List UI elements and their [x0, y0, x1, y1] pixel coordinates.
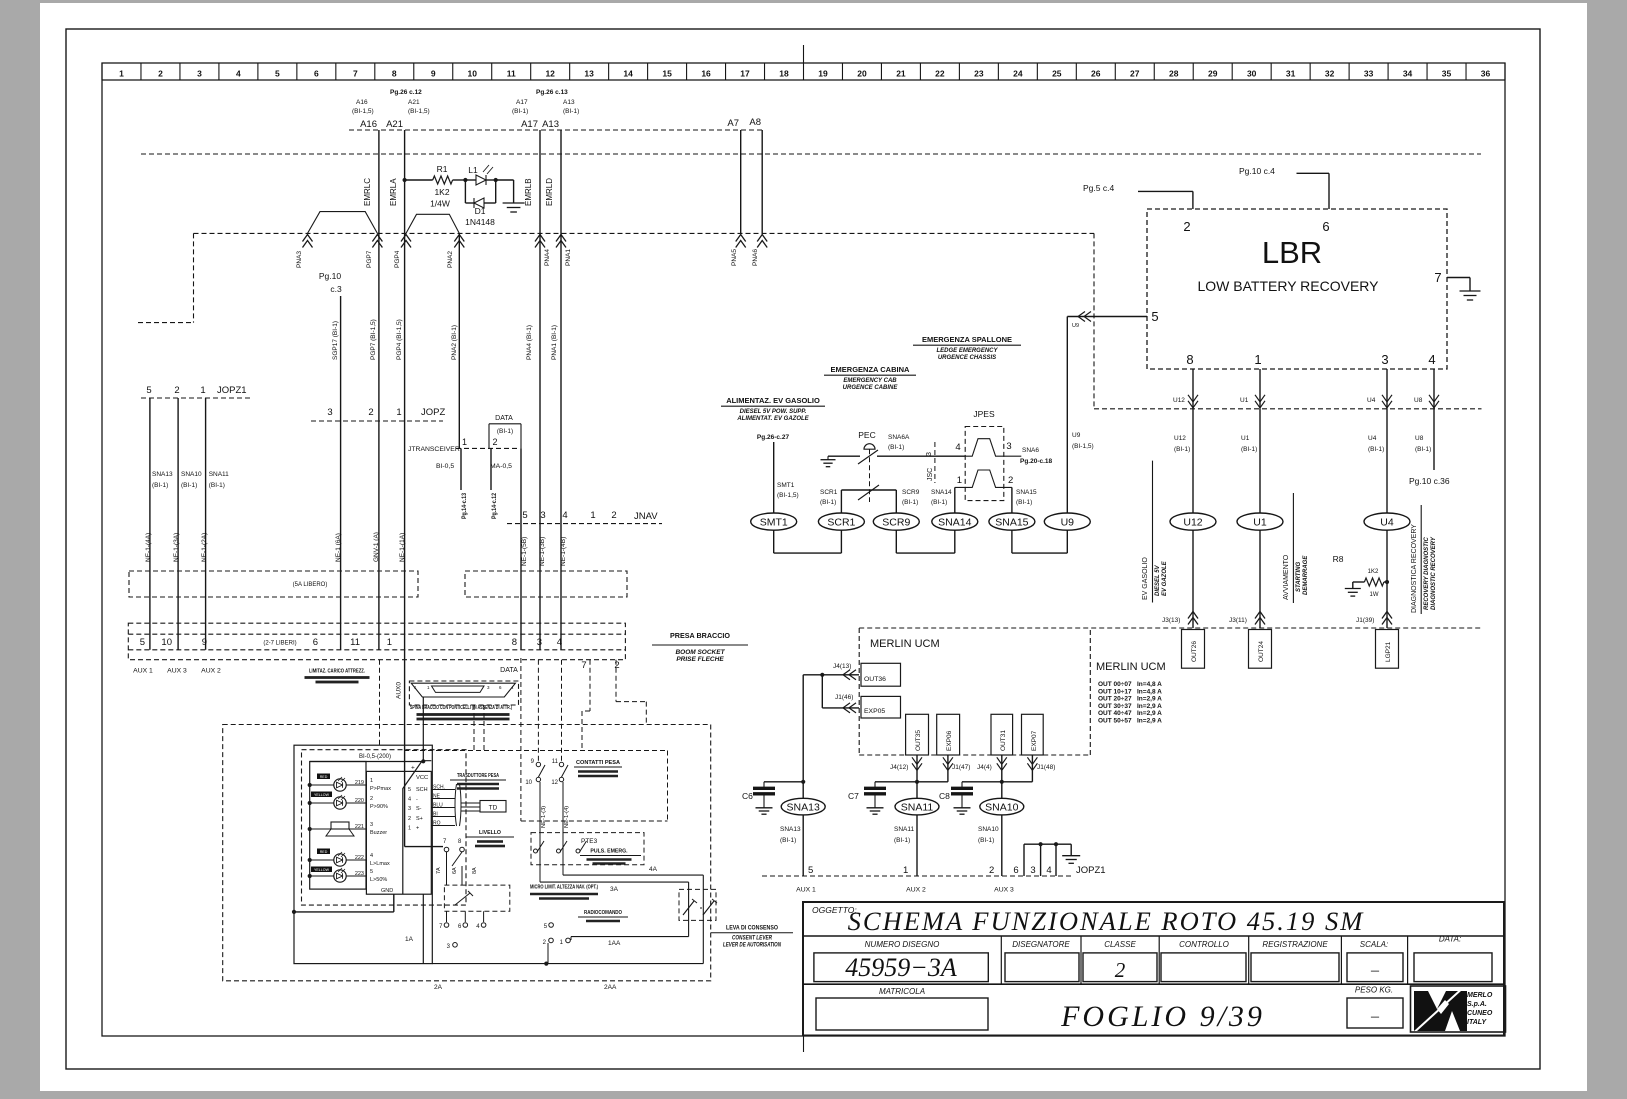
svg-text:OUT26: OUT26 [1191, 641, 1198, 662]
logo MERLO [1411, 986, 1506, 1032]
arrow PNA3 [303, 235, 313, 248]
wire SGP17 [340, 296, 342, 650]
wire A8 riser [761, 130, 763, 233]
svg-text:LGP21: LGP21 [1385, 641, 1392, 662]
bus C (dashed) y=233.4 main power bus [194, 232, 1095, 234]
svg-text:DEMARRAGE: DEMARRAGE [1303, 555, 1309, 595]
terminal EXP07 [1022, 714, 1044, 755]
svg-text:AUX 3: AUX 3 [994, 887, 1014, 894]
wire to ground [496, 179, 514, 181]
svg-text:OUT 40÷47: OUT 40÷47 [1098, 710, 1132, 717]
wire LBR pin5 [1067, 316, 1147, 318]
svg-text:URGENCE CHASSIS: URGENCE CHASSIS [938, 355, 996, 361]
svg-text:TRASDUTTORE PESA: TRASDUTTORE PESA [457, 773, 499, 779]
box TD [480, 801, 506, 813]
svg-text:SNA10: SNA10 [985, 802, 1018, 814]
svg-text:S+: S+ [416, 816, 423, 822]
component U1 [1237, 513, 1283, 530]
svg-text:45959−3A: 45959−3A [845, 953, 957, 982]
svg-text:20: 20 [857, 69, 867, 79]
wire SNA15 [1011, 487, 1013, 513]
svg-text:U1: U1 [1241, 435, 1250, 442]
svg-text:(BI-1,5): (BI-1,5) [408, 108, 430, 115]
svg-text:1: 1 [408, 825, 411, 831]
svg-text:MA-0,5: MA-0,5 [490, 463, 512, 470]
svg-text:CUNEO: CUNEO [1467, 1010, 1493, 1017]
svg-text:J1(46): J1(46) [835, 694, 853, 701]
svg-text:U8: U8 [1414, 397, 1423, 404]
svg-text:7A: 7A [436, 867, 442, 874]
svg-text:CONSENT LEVER: CONSENT LEVER [732, 936, 773, 942]
svg-text:6: 6 [1322, 219, 1329, 234]
svg-text:PNA2: PNA2 [447, 251, 454, 268]
svg-text:2: 2 [408, 816, 411, 822]
module MERLIN UCM [859, 627, 1481, 629]
label JSC [934, 442, 936, 483]
svg-text:4: 4 [236, 69, 241, 79]
jumper bridge PGP4-PNA2 [406, 214, 459, 233]
dashed riser x=1094 to lower bus [1093, 233, 1095, 408]
svg-text:NE-1-(4B): NE-1-(4B) [560, 537, 567, 566]
svg-text:8: 8 [392, 69, 397, 79]
svg-text:30: 30 [1247, 69, 1257, 79]
svg-text:U4: U4 [1380, 517, 1394, 529]
connector JOPZ1 [141, 397, 253, 399]
svg-text:29: 29 [1208, 69, 1218, 79]
svg-text:(BI-1): (BI-1) [209, 482, 225, 489]
svg-text:FOGLIO 9/39: FOGLIO 9/39 [1060, 1000, 1265, 1033]
wire JOPZ1-1 [205, 398, 207, 650]
svg-text:3: 3 [197, 69, 202, 79]
terminal OUT26 [1182, 630, 1205, 669]
connector row PRESA BRACCIO [128, 623, 625, 660]
svg-text:3: 3 [1381, 352, 1388, 367]
contact CONTATTI PESA [404, 750, 668, 752]
wire JOPZ1-2 [177, 398, 179, 650]
component SCR1 [818, 513, 864, 530]
wire 1AA [571, 936, 689, 938]
resistor R1 [403, 178, 407, 182]
switch micro box [444, 885, 509, 911]
svg-text:SNA6: SNA6 [1022, 447, 1039, 454]
svg-text:–: – [1370, 1008, 1380, 1025]
svg-text:EV GASOLIO: EV GASOLIO [1142, 557, 1149, 600]
svg-text:5: 5 [408, 787, 411, 793]
svg-text:In=4,8 A: In=4,8 A [1137, 681, 1162, 688]
link SNA15-U9 [1011, 530, 1013, 553]
svg-text:PESO KG.: PESO KG. [1355, 986, 1393, 995]
svg-text:23: 23 [974, 69, 984, 79]
svg-text:11: 11 [507, 69, 516, 79]
svg-text:OUT 20÷27: OUT 20÷27 [1098, 696, 1132, 703]
svg-text:OUT24: OUT24 [1258, 641, 1265, 662]
arrow PNA1 [556, 235, 566, 248]
svg-text:SCHEMA FUNZIONALE ROTO 45.1: SCHEMA FUNZIONALE ROTO 45.19 SM [848, 906, 1365, 936]
svg-text:8: 8 [1186, 352, 1193, 367]
svg-text:U12: U12 [1174, 435, 1186, 442]
wire LBR pin8 / U12 [1192, 369, 1194, 409]
svg-text:PNA3: PNA3 [296, 251, 303, 268]
dashed riser x=193.5 [193, 233, 195, 322]
svg-text:OUT35: OUT35 [915, 730, 922, 751]
net label EV GASOLIO [1152, 461, 1154, 603]
svg-text:NE-1-(3B): NE-1-(3B) [539, 537, 546, 566]
svg-text:GNV-1 (A): GNV-1 (A) [373, 532, 380, 562]
svg-text:9: 9 [431, 69, 436, 79]
svg-text:PGP4 (BI-1,5): PGP4 (BI-1,5) [396, 319, 403, 360]
svg-text:6: 6 [1013, 865, 1018, 876]
svg-text:Pg.26-c.27: Pg.26-c.27 [757, 434, 790, 441]
svg-text:SCR1: SCR1 [827, 517, 855, 529]
arrow PNA4 [535, 235, 545, 248]
svg-text:(BI-1,5): (BI-1,5) [1072, 443, 1094, 450]
svg-text:U12: U12 [1183, 517, 1202, 529]
radio contacts [453, 943, 458, 948]
svg-text:(BI-1): (BI-1) [563, 108, 579, 115]
svg-text:(BI-1): (BI-1) [820, 499, 836, 506]
svg-text:U4: U4 [1368, 435, 1377, 442]
svg-text:SCR9: SCR9 [902, 489, 920, 496]
svg-text:(BI-1): (BI-1) [1016, 499, 1032, 506]
svg-text:1: 1 [462, 437, 467, 447]
wire PNA1 lower [560, 233, 562, 649]
svg-text:3A: 3A [610, 886, 619, 893]
svg-text:7: 7 [581, 660, 586, 671]
svg-text:D1: D1 [475, 206, 486, 216]
wire SNA14 [954, 487, 956, 513]
svg-text:2: 2 [174, 385, 179, 396]
svg-text:(BI-1): (BI-1) [780, 837, 796, 844]
wire JOPZ1-5 [149, 398, 151, 650]
wire EMRLB [539, 130, 541, 233]
svg-text:PRISE FLECHE: PRISE FLECHE [676, 656, 724, 663]
svg-text:2: 2 [1008, 475, 1013, 486]
wire SCR9 [895, 490, 897, 513]
svg-text:ALIMENTAZ. EV GASOLIO: ALIMENTAZ. EV GASOLIO [726, 396, 820, 405]
svg-text:PTE3: PTE3 [581, 838, 598, 845]
svg-text:U4: U4 [1367, 397, 1376, 404]
svg-text:OUT 30÷37: OUT 30÷37 [1098, 703, 1132, 710]
svg-text:10: 10 [468, 69, 478, 79]
svg-text:1: 1 [903, 865, 908, 876]
wire NE-1-(4) [562, 782, 564, 843]
svg-text:27: 27 [1130, 69, 1140, 79]
wire 2AA bottom [432, 963, 703, 965]
svg-text:LOW BATTERY RECOVERY: LOW BATTERY RECOVERY [1197, 278, 1379, 294]
svg-text:AUX 3: AUX 3 [167, 668, 187, 675]
wire EMRLC [378, 130, 380, 233]
wire 4A [562, 865, 564, 875]
switch pins row [444, 923, 449, 928]
svg-text:2: 2 [158, 69, 163, 79]
svg-text:SPINA BRACCIO CON PONTICELLI (: SPINA BRACCIO CON PONTICELLI (IN ASSENZA… [410, 705, 512, 711]
svg-text:2: 2 [370, 796, 373, 802]
enclosure inner dashed [302, 750, 467, 905]
svg-text:(BI-1): (BI-1) [902, 499, 918, 506]
svg-text:EMERGENZA CABINA: EMERGENZA CABINA [831, 365, 910, 374]
wire LBR pin3 / U4 [1386, 369, 1388, 409]
svg-text:OUT 00÷07: OUT 00÷07 [1098, 681, 1132, 688]
arrow J4(12) [916, 755, 918, 782]
svg-text:In=2,9 A: In=2,9 A [1137, 703, 1162, 710]
svg-text:MERLIN UCM: MERLIN UCM [870, 638, 940, 650]
bus D (dashed) y=408.8 [1094, 408, 1482, 410]
arrow PNA6 [757, 235, 767, 248]
svg-text:(BI-1): (BI-1) [512, 108, 528, 115]
svg-text:24: 24 [1013, 69, 1023, 79]
enclosure dashed (cab unit) [223, 725, 711, 981]
svg-text:DATA: DATA [500, 667, 518, 674]
svg-text:5: 5 [808, 865, 813, 876]
svg-text:PGP4: PGP4 [394, 250, 401, 268]
svg-text:(BI-1): (BI-1) [1415, 446, 1431, 453]
wire U4 lower [1386, 530, 1388, 628]
svg-text:ALIMENTAT. EV GAZOLE: ALIMENTAT. EV GAZOLE [736, 416, 809, 422]
svg-text:SMT1: SMT1 [777, 482, 795, 489]
svg-text:PNA4 (BI-1): PNA4 (BI-1) [526, 325, 533, 360]
svg-text:JNAV: JNAV [634, 511, 658, 522]
svg-text:LIMITAZ. CARICO ATTREZZ.: LIMITAZ. CARICO ATTREZZ. [309, 669, 365, 675]
svg-text:(2-7 LIBERI): (2-7 LIBERI) [263, 641, 296, 647]
svg-text:NE-1-(1A): NE-1-(1A) [399, 533, 406, 562]
svg-text:C8: C8 [939, 791, 950, 801]
svg-text:A7: A7 [727, 118, 739, 129]
svg-text:In=2,9 A: In=2,9 A [1137, 718, 1162, 725]
svg-text:3: 3 [408, 806, 411, 812]
svg-text:J4(13): J4(13) [833, 663, 851, 670]
svg-text:7: 7 [353, 69, 358, 79]
svg-text:A13: A13 [563, 99, 575, 106]
svg-text:J4(12): J4(12) [890, 764, 908, 771]
wire DATA right leg [520, 448, 522, 649]
svg-text:NE-1-(4A): NE-1-(4A) [145, 533, 152, 562]
title row2 boxes [814, 953, 988, 982]
svg-text:1: 1 [957, 475, 962, 486]
svg-text:10: 10 [525, 780, 532, 786]
svg-text:OUT36: OUT36 [864, 676, 886, 683]
wire LBR pin4 / U8 [1433, 369, 1435, 409]
svg-text:U9: U9 [1072, 323, 1079, 329]
svg-text:18: 18 [779, 69, 789, 79]
svg-text:15: 15 [662, 69, 672, 79]
wire PEC upper [828, 455, 860, 457]
svg-text:(BI-1): (BI-1) [152, 482, 168, 489]
column ruler [102, 79, 1505, 81]
svg-text:35: 35 [1442, 69, 1452, 79]
terminal LGP21 [1376, 630, 1399, 669]
svg-text:4: 4 [408, 797, 411, 803]
wire OUT36/EXP05 tie [803, 674, 859, 676]
svg-text:22: 22 [935, 69, 945, 79]
wire NE-1-(3) [539, 782, 541, 843]
svg-text:EXP06: EXP06 [946, 730, 953, 751]
svg-text:(BI-1): (BI-1) [1241, 446, 1257, 453]
svg-text:1K2: 1K2 [434, 187, 449, 197]
connector JNAV [507, 523, 662, 525]
svg-text:J1(39): J1(39) [1356, 617, 1374, 624]
wire EMRLA [404, 130, 406, 233]
svg-text:4: 4 [1428, 352, 1435, 367]
svg-text:6: 6 [313, 637, 318, 648]
terminal OUT31 [991, 714, 1013, 755]
component U12 [1170, 513, 1216, 530]
ground (JOPZ1) [1062, 855, 1080, 857]
svg-text:LEVA DI CONSENSO: LEVA DI CONSENSO [726, 925, 778, 932]
svg-text:2A: 2A [434, 984, 443, 991]
svg-text:PGP7: PGP7 [366, 250, 373, 268]
svg-text:28: 28 [1169, 69, 1179, 79]
svg-text:17: 17 [740, 69, 750, 79]
svg-text:P>Pmax: P>Pmax [370, 786, 391, 792]
svg-text:A8: A8 [749, 117, 761, 128]
diode D1 1N4148 [464, 180, 466, 203]
svg-text:(BI-1): (BI-1) [1368, 446, 1384, 453]
wire PGP7 lower [378, 233, 380, 649]
terminal EXP06 [937, 714, 960, 755]
svg-text:5: 5 [370, 869, 373, 875]
wire 1A [422, 894, 424, 963]
component SNA13 [802, 782, 804, 799]
svg-text:OUT31: OUT31 [1000, 730, 1007, 751]
svg-text:5: 5 [522, 510, 527, 521]
svg-text:PNA5: PNA5 [731, 249, 738, 266]
svg-text:J1(47): J1(47) [952, 764, 970, 771]
svg-text:R1: R1 [437, 164, 448, 174]
svg-text:In=2,9 A: In=2,9 A [1137, 710, 1162, 717]
component SNA10 [1001, 782, 1003, 799]
svg-text:EMRLC: EMRLC [363, 178, 372, 206]
svg-text:5: 5 [275, 69, 280, 79]
svg-text:34: 34 [1403, 69, 1413, 79]
component SMT1 [751, 513, 797, 530]
svg-text:Pg.14-c.13: Pg.14-c.13 [462, 492, 468, 519]
fold mark bottom [803, 1036, 805, 1052]
svg-text:SNA11: SNA11 [901, 802, 934, 814]
module LBR [1147, 209, 1447, 369]
arrow PNA2 [454, 235, 464, 248]
svg-text:ITALY: ITALY [1467, 1019, 1488, 1026]
wire U12 lower [1192, 530, 1194, 628]
svg-text:SNA13: SNA13 [787, 802, 820, 814]
switch LIVELLO [405, 846, 443, 848]
svg-text:2: 2 [989, 865, 994, 876]
svg-text:CONTATTI PESA: CONTATTI PESA [576, 760, 620, 766]
svg-text:PULS. EMERG.: PULS. EMERG. [590, 849, 628, 855]
terminal OUT35 [906, 714, 929, 755]
svg-text:(BI-1): (BI-1) [888, 444, 904, 451]
svg-text:RECOVERY DIAGNOSTIC: RECOVERY DIAGNOSTIC [1424, 537, 1430, 610]
svg-text:L>50%: L>50% [370, 877, 387, 883]
svg-text:SCH: SCH [416, 787, 428, 793]
svg-text:U1: U1 [1240, 397, 1249, 404]
svg-text:NE-1-(3): NE-1-(3) [541, 806, 547, 828]
svg-text:JOPZ1: JOPZ1 [1076, 865, 1106, 876]
jumper JPES bottom [955, 470, 1012, 487]
svg-text:13: 13 [584, 69, 594, 79]
display unit [310, 762, 366, 890]
svg-text:URGENCE CABINE: URGENCE CABINE [843, 385, 899, 391]
svg-text:3: 3 [926, 452, 933, 456]
svg-text:VCC: VCC [416, 775, 428, 781]
svg-text:(BI-1): (BI-1) [181, 482, 197, 489]
svg-text:OUT 50÷57: OUT 50÷57 [1098, 718, 1132, 725]
svg-text:10: 10 [161, 637, 172, 648]
ground (R8) [1345, 588, 1361, 590]
svg-text:2: 2 [614, 660, 619, 671]
svg-text:PNA1 (BI-1): PNA1 (BI-1) [551, 325, 558, 360]
wire PGP4 lower [404, 233, 406, 846]
svg-text:SNA14: SNA14 [931, 489, 952, 496]
svg-text:J3(13): J3(13) [1162, 617, 1180, 624]
connector AUX0 [409, 681, 518, 705]
terminal OUT24 [1249, 630, 1272, 669]
svg-text:Pg.5 c.4: Pg.5 c.4 [1083, 183, 1114, 193]
svg-text:6A: 6A [452, 867, 458, 874]
svg-text:U8: U8 [1415, 435, 1424, 442]
svg-text:12: 12 [551, 780, 558, 786]
svg-text:1: 1 [370, 778, 373, 784]
svg-text:-: - [416, 797, 418, 803]
lamp color tags [317, 774, 330, 780]
svg-text:3: 3 [327, 407, 332, 418]
svg-text:EMERGENZA SPALLONE: EMERGENZA SPALLONE [922, 335, 1012, 344]
lamps [334, 779, 346, 791]
svg-text:6: 6 [314, 69, 319, 79]
svg-text:19: 19 [818, 69, 828, 79]
svg-text:5: 5 [1151, 309, 1158, 324]
wire PNA2 lower [458, 233, 460, 448]
svg-text:26: 26 [1091, 69, 1101, 79]
contacts PTE3 [534, 849, 538, 853]
ground (R1 circuit) [503, 202, 525, 204]
svg-text:1/4W: 1/4W [430, 199, 450, 209]
svg-text:EXP05: EXP05 [864, 708, 885, 715]
svg-text:MICRO LIMIT. ALTEZZA NAV. (OPT: MICRO LIMIT. ALTEZZA NAV. (OPT.) [530, 885, 598, 891]
svg-text:3: 3 [540, 510, 545, 521]
svg-text:(BI-1,5): (BI-1,5) [352, 108, 374, 115]
svg-text:(BI-1,5): (BI-1,5) [777, 492, 799, 499]
svg-text:(BI-1): (BI-1) [978, 837, 994, 844]
svg-text:16: 16 [701, 69, 711, 79]
svg-text:EMRLB: EMRLB [524, 178, 533, 206]
dashed drops below row [537, 660, 539, 761]
arrow J1(47) [947, 755, 949, 782]
svg-text:1: 1 [200, 385, 205, 396]
svg-text:25: 25 [1052, 69, 1062, 79]
svg-text:–: – [1370, 962, 1380, 979]
svg-text:DIESEL 5V: DIESEL 5V [1155, 564, 1161, 596]
wire PNA4 lower [539, 233, 541, 649]
wire U1 lower [1259, 530, 1261, 628]
bus B (dashed) y=154 [141, 153, 1481, 155]
svg-text:C7: C7 [848, 791, 859, 801]
svg-text:11: 11 [552, 759, 559, 765]
svg-text:In=4,8 A: In=4,8 A [1137, 688, 1162, 695]
svg-text:1AA: 1AA [608, 940, 621, 947]
svg-text:DIESEL 5V POW. SUPP.: DIESEL 5V POW. SUPP. [740, 409, 807, 415]
svg-text:4: 4 [955, 442, 960, 453]
svg-text:AUX 1: AUX 1 [133, 668, 153, 675]
svg-text:4: 4 [370, 853, 373, 859]
svg-text:MERLIN UCM: MERLIN UCM [1096, 661, 1166, 673]
svg-text:21: 21 [896, 69, 906, 79]
svg-text:SNA15: SNA15 [1016, 489, 1037, 496]
svg-text:R8: R8 [1333, 554, 1344, 564]
svg-text:1: 1 [396, 407, 401, 418]
svg-text:SCR1: SCR1 [820, 489, 838, 496]
svg-text:Buzzer: Buzzer [370, 830, 387, 836]
svg-text:AUX 2: AUX 2 [201, 668, 221, 675]
